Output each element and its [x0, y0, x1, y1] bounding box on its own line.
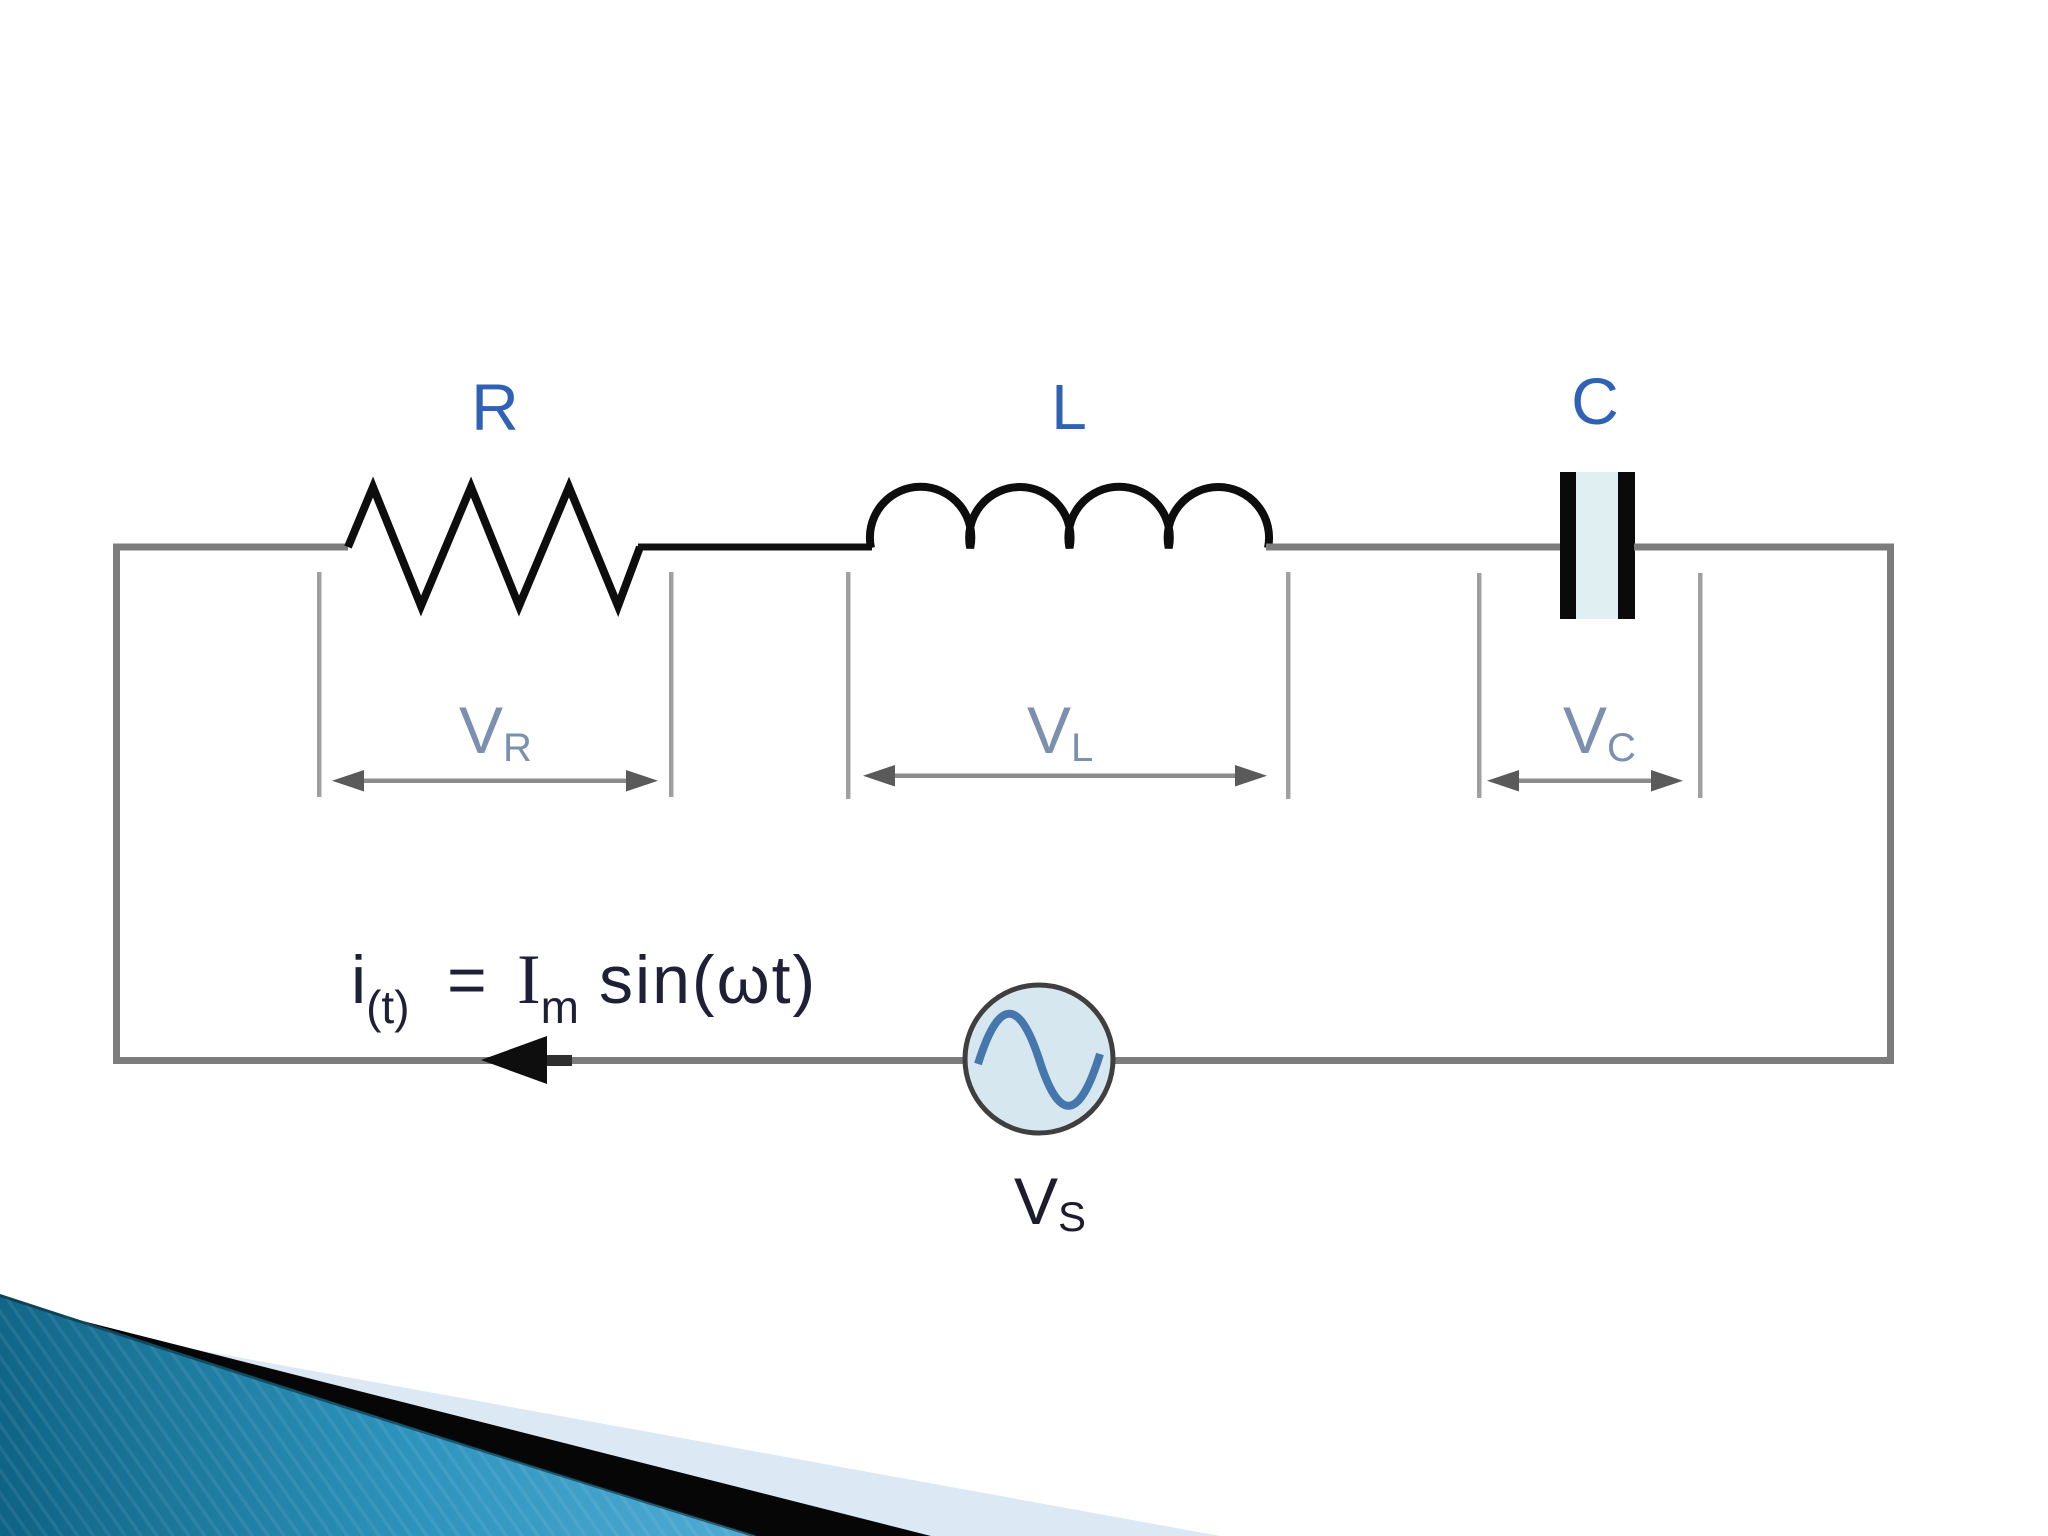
- node VC left tick: [1477, 573, 1482, 798]
- voltage source Vs: [965, 985, 1113, 1133]
- node VR right tick: [669, 572, 674, 797]
- svg-text:VC: VC: [1563, 693, 1636, 770]
- node VL left tick: [846, 572, 851, 799]
- resistor R: [348, 487, 640, 606]
- svg-text:C: C: [1571, 364, 1619, 438]
- svg-text:L: L: [1051, 371, 1087, 443]
- wire bottom right segment: [1110, 1057, 1894, 1064]
- wire resistor-to-inductor: [638, 544, 872, 551]
- arrow VR: [332, 770, 658, 792]
- node VL right tick: [1286, 572, 1291, 799]
- svg-text:VS: VS: [1014, 1164, 1086, 1240]
- node VR left tick: [317, 572, 322, 797]
- node VC right tick: [1698, 573, 1703, 798]
- arrow VC: [1487, 770, 1683, 792]
- svg-text:i(t)=Imsin(ωt): i(t)=Imsin(ωt): [351, 941, 817, 1033]
- wire right vertical: [1887, 544, 1894, 1064]
- wire top-left segment: [113, 544, 348, 551]
- capacitor C left plate: [1560, 472, 1576, 619]
- current direction arrow: [481, 1036, 572, 1084]
- capacitor C right plate: [1618, 472, 1635, 619]
- wire bottom left segment: [113, 1057, 970, 1064]
- wire left vertical: [113, 544, 120, 1064]
- arrow VL: [863, 765, 1267, 787]
- capacitor C dielectric: [1576, 472, 1618, 619]
- inductor L: [870, 487, 1269, 548]
- svg-text:R: R: [471, 370, 519, 444]
- svg-text:VL: VL: [1027, 693, 1093, 770]
- wire inductor-to-capacitor: [1266, 544, 1561, 551]
- svg-text:VR: VR: [459, 693, 532, 770]
- wire capacitor-to-corner: [1634, 544, 1894, 551]
